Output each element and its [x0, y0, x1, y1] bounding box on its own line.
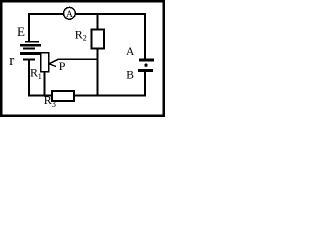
- svg-text:2: 2: [83, 33, 87, 43]
- svg-text:A: A: [126, 46, 135, 58]
- svg-text:A: A: [66, 10, 73, 20]
- svg-text:r: r: [9, 53, 14, 69]
- svg-text:B: B: [126, 70, 134, 82]
- svg-text:E: E: [17, 24, 25, 39]
- svg-text:P: P: [59, 59, 66, 73]
- svg-text:3: 3: [52, 99, 57, 109]
- svg-text:1: 1: [38, 71, 42, 81]
